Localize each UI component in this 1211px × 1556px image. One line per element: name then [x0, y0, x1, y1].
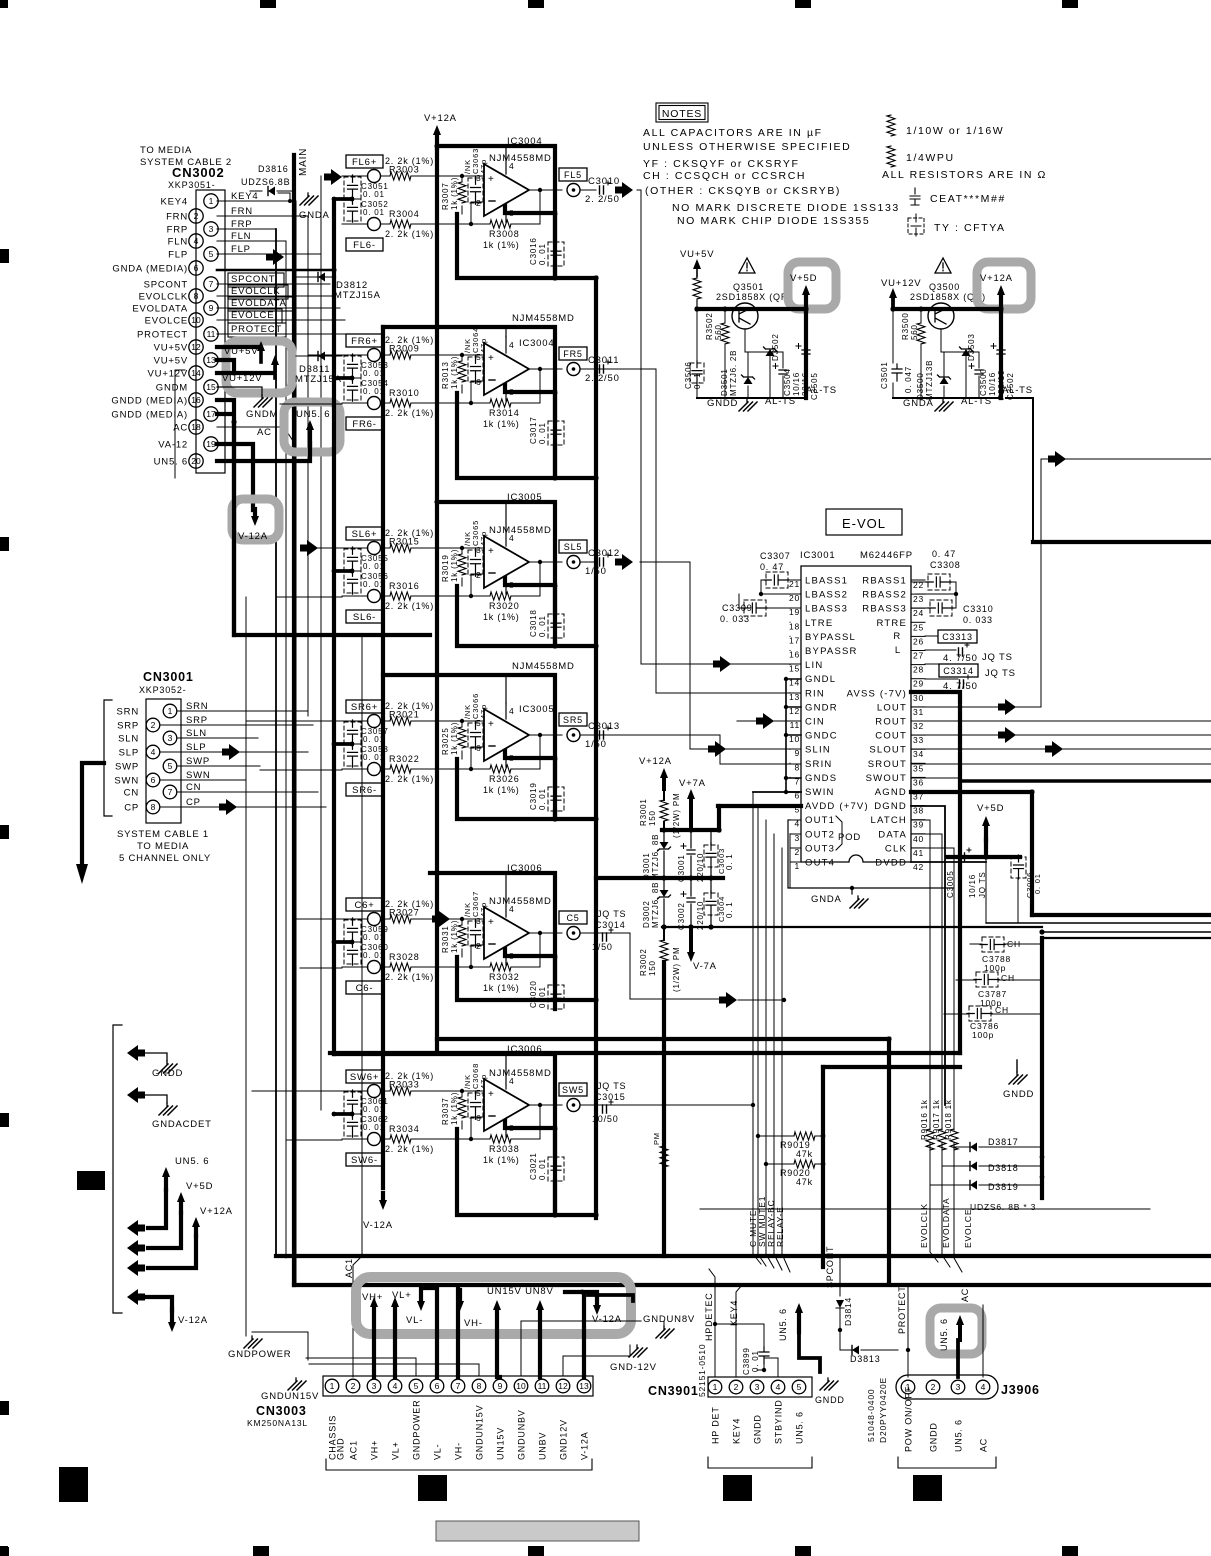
svg-text:C3016: C3016 [529, 237, 538, 265]
svg-text:C3313: C3313 [942, 632, 973, 642]
svg-text:M62446FP: M62446FP [860, 550, 913, 561]
svg-text:PM: PM [652, 1132, 661, 1145]
svg-text:9: 9 [794, 748, 800, 758]
svg-text:GNDD: GNDD [152, 1068, 183, 1079]
wire FL pin8 thick elbow [505, 206, 555, 213]
wire OUT pins left stubs [788, 820, 801, 888]
svg-text:NJM4558MD: NJM4558MD [489, 896, 552, 907]
svg-text:UNBV: UNBV [538, 1432, 548, 1460]
svg-text:R3009: R3009 [389, 344, 420, 354]
svg-text:12: 12 [558, 1381, 568, 1391]
arrow SL output right [615, 554, 633, 570]
wire mid rail y878 [596, 876, 723, 880]
svg-text:4: 4 [194, 236, 199, 246]
svg-text:D3502: D3502 [771, 333, 780, 361]
svg-text:LOUT: LOUT [877, 702, 907, 713]
svg-text:R3025: R3025 [441, 727, 450, 755]
wire V-12A bus x383 [381, 327, 385, 1188]
svg-text:UN5. 6: UN5. 6 [939, 1318, 949, 1351]
svg-text:C3017: C3017 [529, 416, 538, 444]
svg-text:FL6+: FL6+ [352, 157, 377, 168]
svg-text:CN3001: CN3001 [143, 670, 194, 684]
svg-text:V+12A: V+12A [424, 113, 457, 124]
svg-text:FRN: FRN [166, 212, 188, 223]
wire SPCONT label boxes [228, 273, 284, 287]
svg-text:C3021: C3021 [529, 1152, 538, 1180]
svg-text:14: 14 [191, 368, 201, 378]
svg-text:2. 2k (1%): 2. 2k (1%) [385, 601, 434, 611]
svg-text:30: 30 [913, 693, 924, 703]
arrow fourth left [127, 1289, 145, 1305]
CN3002 pin 6 GNDA (MEDIA) [189, 261, 203, 275]
input label SR6+ [346, 700, 383, 713]
svg-text:AL-TS: AL-TS [765, 396, 796, 407]
input label FR6+ [346, 334, 383, 347]
op-amp stage FR box wires [383, 327, 596, 478]
svg-text:HP DET: HP DET [711, 1406, 721, 1444]
svg-text:Q3501: Q3501 [733, 282, 764, 292]
wire Q3500 bottom rail [893, 397, 1001, 399]
svg-text:10/16: 10/16 [792, 372, 801, 396]
wire UN5.6 pin20 [217, 443, 310, 461]
svg-text:SLP: SLP [119, 748, 139, 759]
diode D3813 [840, 1340, 852, 1350]
svg-text:R9017 1k: R9017 1k [932, 1099, 941, 1140]
svg-text:R3500: R3500 [901, 312, 910, 340]
CN3901 pin 2 [729, 1380, 743, 1394]
svg-text:11: 11 [538, 1381, 547, 1391]
ground GNDD mid right [1016, 1072, 1018, 1075]
svg-text:GNDPOWER: GNDPOWER [412, 1400, 422, 1460]
wire SW in- row [342, 1117, 490, 1139]
wire SL out to SLIN riser [640, 562, 708, 749]
svg-text:CLK: CLK [885, 843, 907, 854]
wire SL feedback loop [511, 562, 540, 596]
wires CN3001 lower pins [160, 766, 318, 807]
svg-text:PROTECT: PROTECT [137, 330, 188, 341]
svg-text:RIN: RIN [805, 688, 825, 699]
input label C6- [346, 981, 383, 994]
wire x889 down [887, 1039, 891, 1283]
svg-text:1/10W or 1/16W: 1/10W or 1/16W [906, 125, 1004, 137]
gray highlight VU+5V VU+12V [226, 341, 292, 393]
capacitor C3003 0.1 [704, 845, 718, 867]
svg-text:C3020: C3020 [529, 980, 538, 1008]
svg-text:560: 560 [910, 324, 919, 340]
svg-text:8: 8 [194, 291, 199, 301]
svg-text:DVDD: DVDD [875, 858, 907, 869]
svg-text:SR6-: SR6- [352, 785, 377, 796]
svg-text:34: 34 [913, 749, 924, 759]
CN3002 pin 18 AC [189, 420, 203, 434]
CN3002 pin 14 VU+12V [189, 366, 203, 380]
svg-text:SLOUT: SLOUT [869, 745, 907, 756]
wire FL out riser to LIN [637, 190, 713, 664]
svg-text:+: + [488, 1089, 494, 1100]
svg-text:UN5. 6: UN5. 6 [175, 1156, 209, 1167]
gray highlight UN5.6 box [284, 402, 340, 452]
svg-text:JQ TS: JQ TS [597, 1081, 626, 1091]
svg-text:4: 4 [393, 1381, 398, 1391]
svg-text:RELAY-E: RELAY-E [775, 1206, 785, 1247]
wire vertical bus x234 to x430 [234, 422, 430, 635]
wire SR in- row [342, 747, 490, 769]
svg-text:V+12A: V+12A [639, 756, 672, 767]
svg-text:XKP3051-: XKP3051- [168, 180, 215, 190]
CN3003 pin 9 [493, 1379, 507, 1393]
wire EVOL verticals lower [930, 1143, 962, 1272]
CN3002 pin 3 FRP [204, 222, 218, 236]
svg-text:36: 36 [913, 777, 924, 787]
svg-text:0. 01: 0. 01 [538, 1158, 547, 1180]
svg-text:D3813: D3813 [850, 1354, 881, 1364]
svg-text:35: 35 [913, 763, 924, 773]
wire RIN from left [656, 692, 801, 694]
svg-text:+: + [488, 353, 494, 364]
wire AGND thick [911, 792, 1032, 915]
warning triangle Q3501 [739, 258, 755, 273]
svg-text:3: 3 [476, 173, 482, 183]
svg-text:ALL CAPACITORS ARE IN µF: ALL CAPACITORS ARE IN µF [643, 127, 823, 139]
wire C in rows left [296, 919, 342, 968]
J3906 pin 4 [976, 1380, 990, 1394]
CN3002 pin 12 VU+5V [189, 340, 203, 354]
svg-text:JQ TS: JQ TS [985, 668, 1016, 679]
svg-text:SLN: SLN [186, 728, 207, 739]
svg-text:42: 42 [913, 862, 924, 872]
CN3002 pin 11 PROTECT [204, 327, 218, 341]
svg-text:D3001: D3001 [642, 852, 651, 880]
resistor vertical VU+5V feed [693, 278, 701, 299]
svg-text:4: 4 [509, 161, 515, 171]
svg-text:VH-: VH- [464, 1318, 483, 1329]
arrow UN5.6 CN3901 [795, 1303, 803, 1313]
svg-text:6: 6 [476, 377, 482, 387]
svg-text:0. 01: 0. 01 [538, 243, 547, 265]
J3906 pin 2 [926, 1380, 940, 1394]
wire SL pin8 thick elbow [505, 578, 555, 585]
wire C pin4 stub to rail [505, 873, 507, 901]
svg-text:39: 39 [913, 820, 924, 830]
svg-text:SWP: SWP [186, 756, 210, 767]
svg-text:FL5: FL5 [564, 170, 582, 180]
arrow on C5 route [719, 992, 737, 1008]
wire LOUT to right edge [1041, 458, 1211, 460]
input terminal FR6- circle [368, 397, 381, 410]
svg-text:V+7A: V+7A [679, 778, 706, 789]
resistor R9020 47k [766, 1163, 794, 1165]
svg-text:2: 2 [476, 198, 482, 208]
svg-text:13: 13 [206, 355, 216, 365]
wire SW feedback loop [511, 1105, 540, 1139]
svg-text:AC1: AC1 [349, 1440, 359, 1460]
svg-text:R3010: R3010 [389, 388, 420, 398]
wire SL in- row [342, 574, 490, 596]
svg-text:1k (1%): 1k (1%) [483, 785, 520, 795]
svg-text:GNDD: GNDD [753, 1414, 763, 1444]
svg-text:0. 01: 0. 01 [538, 788, 547, 810]
svg-text:150: 150 [648, 960, 657, 976]
svg-text:C6+: C6+ [354, 900, 374, 911]
svg-text:GNDA (MEDIA): GNDA (MEDIA) [112, 264, 188, 275]
capacitor C3786 100p [969, 1006, 991, 1021]
wire AVDD riser x719 [717, 806, 721, 830]
CN3002 pin 8 EVOLCLK [189, 289, 203, 303]
CN3003 pin 2 [346, 1379, 360, 1393]
wires CN3001 pins to right [160, 711, 313, 752]
wire VA-12 pin19 [217, 444, 253, 510]
svg-text:7: 7 [168, 787, 173, 797]
wire SR pin8 thick elbow [505, 751, 555, 758]
wire LIN arrow [713, 656, 731, 672]
svg-text:(OTHER : CKSQYB or CKSRYB): (OTHER : CKSQYB or CKSRYB) [645, 185, 841, 197]
svg-text:0. 01: 0. 01 [363, 387, 385, 396]
svg-text:10/16: 10/16 [968, 874, 977, 898]
svg-text:6: 6 [476, 743, 482, 753]
svg-text:0. 01: 0. 01 [363, 753, 385, 762]
wire SW caps junction [334, 1112, 352, 1116]
CN3001 pin 6 SWN [146, 773, 160, 787]
svg-text:2. 2k (1%): 2. 2k (1%) [385, 1144, 434, 1154]
capacitor C3057 0.01 [344, 722, 361, 744]
svg-text:18: 18 [191, 422, 201, 432]
svg-text:27: 27 [913, 651, 924, 661]
arrow V+12A right [997, 285, 1005, 295]
svg-text:R3027: R3027 [389, 908, 420, 918]
wire FR output [529, 368, 596, 370]
svg-text:EVOLDATA: EVOLDATA [941, 1198, 951, 1249]
svg-text:4: 4 [509, 340, 515, 350]
CN3901 pin 5 [792, 1380, 806, 1394]
svg-text:+: + [488, 719, 494, 730]
svg-text:SLP: SLP [186, 742, 206, 753]
CN3001 pin 2 SRP [146, 718, 160, 732]
wire SL in+ row [342, 547, 484, 549]
wire long bus y1256 [276, 1254, 1211, 1258]
svg-text:R3502: R3502 [705, 312, 714, 340]
gray highlight V+12A right [977, 262, 1031, 309]
CN3003 pin 11 [535, 1379, 549, 1393]
svg-text:0. 01: 0. 01 [363, 735, 385, 744]
svg-text:V-12A: V-12A [363, 1220, 393, 1231]
svg-text:2: 2 [476, 941, 482, 951]
wire SR in rows left [246, 721, 342, 770]
svg-text:26: 26 [913, 636, 924, 646]
wire ROUT right [911, 720, 1211, 722]
svg-text:VU+5V: VU+5V [154, 343, 188, 354]
wire IC3001 bottom to GNDA [788, 820, 953, 894]
wire V+5D node [947, 839, 1020, 857]
CN3002 pin 7 SPCONT [204, 277, 218, 291]
svg-text:1: 1 [209, 196, 214, 206]
svg-text:MTZJ15A: MTZJ15A [295, 374, 342, 385]
svg-text:VL+: VL+ [391, 1441, 401, 1460]
input terminal SL6+ circle [368, 542, 381, 555]
svg-text:3: 3 [755, 1382, 760, 1392]
CN3901 bracket [708, 1457, 812, 1468]
svg-text:KEY4: KEY4 [161, 197, 189, 208]
svg-text:150: 150 [648, 810, 657, 826]
arrow long down left of CN3001 [82, 763, 104, 867]
capacitor C3058 0.01 [344, 744, 361, 766]
svg-text:NJM4558MD: NJM4558MD [489, 525, 552, 536]
CN3003 pin 8 [472, 1379, 486, 1393]
capacitor C3062 0.01 [344, 1114, 361, 1136]
wire C feedback loop [511, 933, 540, 967]
arrow VU+5V [693, 259, 701, 269]
CN3003 pin 5 [409, 1379, 423, 1393]
arrow VL+ up [391, 1297, 399, 1307]
op-amp C power pins 4 8 [505, 901, 507, 965]
wire CIN arrow [756, 713, 774, 729]
svg-text:2SD1858X (QR): 2SD1858X (QR) [716, 292, 792, 302]
svg-text:GNDD (MEDIA): GNDD (MEDIA) [111, 396, 188, 407]
CN3002 pin 4 FLN [189, 234, 203, 248]
svg-text:VH+: VH+ [370, 1440, 380, 1460]
svg-text:GNDUNBV: GNDUNBV [517, 1409, 527, 1460]
svg-text:GNDA: GNDA [299, 210, 330, 221]
svg-text:5 CHANNEL ONLY: 5 CHANNEL ONLY [119, 853, 211, 864]
svg-text:VU+12V: VU+12V [881, 278, 921, 289]
svg-text:GNDD: GNDD [707, 398, 738, 409]
svg-text:8: 8 [151, 802, 156, 812]
svg-text:+: + [488, 174, 494, 185]
svg-text:SRP: SRP [186, 715, 208, 726]
gray highlight V+5D [788, 262, 836, 309]
svg-text:3: 3 [372, 1381, 377, 1391]
arrow V+12A top [433, 125, 441, 135]
svg-text:GNDUN15V: GNDUN15V [261, 1391, 319, 1402]
CN3001 bracket [104, 700, 112, 816]
svg-text:0. 01: 0. 01 [363, 1105, 385, 1114]
wire C pin8 thick elbow [505, 949, 555, 956]
arrow V+5D left chain [177, 1192, 185, 1202]
svg-text:4: 4 [509, 904, 515, 914]
svg-text:SLN: SLN [118, 734, 139, 745]
svg-text:CH: CH [1001, 973, 1015, 983]
svg-text:4: 4 [509, 533, 515, 543]
svg-text:NO MARK CHIP DIODE 1SS355: NO MARK CHIP DIODE 1SS355 [677, 215, 870, 227]
CN3003 pin 3 [367, 1379, 381, 1393]
svg-text:R: R [893, 631, 901, 642]
CN3002 pin 13 VU+5V [204, 353, 218, 367]
svg-text:2: 2 [351, 1381, 356, 1391]
svg-text:HPDETEC: HPDETEC [704, 1292, 714, 1341]
gray highlight CN3003 header [356, 1277, 631, 1334]
svg-text:KEY4: KEY4 [729, 1300, 739, 1326]
svg-text:R3021: R3021 [389, 710, 420, 720]
svg-text:MTZJ6. 8B: MTZJ6. 8B [651, 882, 660, 928]
svg-text:R3022: R3022 [389, 754, 420, 764]
ground GNDM [217, 387, 262, 395]
svg-text:TO MEDIA: TO MEDIA [140, 145, 192, 156]
svg-text:STBYIND: STBYIND [774, 1399, 784, 1444]
svg-text:GNDPOWER: GNDPOWER [228, 1349, 291, 1360]
ground GNDD left [166, 1061, 168, 1064]
wire Q3500 network [893, 309, 979, 398]
CN3003 pin 4 [388, 1379, 402, 1393]
svg-text:0. 47: 0. 47 [760, 562, 784, 572]
svg-text:KEY4: KEY4 [231, 191, 259, 202]
svg-text:IC3004: IC3004 [519, 338, 554, 349]
registration marks bottom edge [0, 1546, 8, 1556]
svg-text:1k (1%): 1k (1%) [483, 240, 520, 250]
svg-text:1: 1 [330, 1381, 335, 1391]
svg-text:FLP: FLP [168, 250, 188, 261]
op-amp triangle SW [484, 1079, 529, 1131]
gray highlight V-12A box [232, 499, 279, 540]
svg-text:NJM4558MD: NJM4558MD [512, 313, 575, 324]
wire FR caps junction [334, 376, 352, 380]
svg-text:R3015: R3015 [389, 537, 420, 547]
wire SR pin4 stub to rail [505, 675, 507, 703]
notes resistor symbol 1/10W [887, 115, 895, 136]
CN3002 pin 19 VA-12 [204, 437, 218, 451]
svg-text:10: 10 [516, 1381, 526, 1391]
svg-text:C3019: C3019 [529, 782, 538, 810]
svg-text:32: 32 [913, 721, 924, 731]
wire SR output [529, 734, 596, 736]
arrow VH+ up [370, 1297, 378, 1307]
svg-text:1k (1%): 1k (1%) [483, 1155, 520, 1165]
diode D3812 [296, 276, 334, 278]
diode D3814 [836, 1300, 844, 1308]
ground GNDPOWER [245, 597, 247, 1336]
svg-text:AVSS (-7V): AVSS (-7V) [847, 688, 907, 699]
capacitor C3314 4.7/50 [939, 664, 978, 677]
svg-text:R3016: R3016 [389, 581, 420, 591]
svg-text:RBASS1: RBASS1 [862, 576, 907, 587]
svg-text:POD: POD [838, 832, 861, 843]
svg-text:15: 15 [789, 664, 800, 674]
svg-text:0. 01: 0. 01 [1033, 873, 1042, 894]
svg-text:C3500: C3500 [979, 368, 988, 396]
capacitor C3054 0.01 [344, 378, 361, 400]
wire bus y1067 [823, 1065, 960, 1069]
svg-text:RBASS3: RBASS3 [862, 604, 907, 615]
svg-text:VA-12: VA-12 [158, 440, 188, 451]
svg-text:V-12A: V-12A [178, 1315, 208, 1326]
svg-text:AL-TS: AL-TS [806, 385, 837, 396]
svg-text:0. 01: 0. 01 [363, 951, 385, 960]
wire C in- row [342, 945, 490, 967]
svg-text:V+5D: V+5D [977, 803, 1004, 814]
svg-text:R3007: R3007 [441, 182, 450, 210]
svg-text:J3906: J3906 [1001, 1383, 1040, 1397]
wire FL in- row [342, 202, 490, 224]
diode D3811 at FR input [296, 355, 342, 357]
svg-text:C3002: C3002 [677, 902, 686, 930]
wire bus y1053 [330, 1051, 960, 1055]
svg-text:FLN: FLN [231, 231, 251, 242]
svg-text:GNDD: GNDD [1003, 1089, 1034, 1100]
alignment squares above bottom edge [59, 1467, 88, 1502]
arrow V-12A down cn3003 [593, 1305, 601, 1315]
wire +7A rail y830 [662, 828, 719, 832]
wire FR out to RIN [596, 369, 656, 693]
svg-text:AC: AC [960, 1288, 970, 1302]
svg-text:17: 17 [206, 409, 216, 419]
svg-text:C3308: C3308 [930, 560, 961, 570]
svg-text:CN3003: CN3003 [256, 1404, 307, 1418]
arrow UN15V up [493, 1300, 501, 1310]
svg-text:GNDA: GNDA [903, 398, 934, 409]
svg-text:SPCONT: SPCONT [144, 280, 188, 291]
svg-text:GNDUN8V: GNDUN8V [643, 1314, 695, 1325]
input label C6+ [346, 898, 383, 911]
svg-text:LBASS1: LBASS1 [805, 576, 848, 587]
wire y915 cluster to right edge [1032, 913, 1211, 917]
